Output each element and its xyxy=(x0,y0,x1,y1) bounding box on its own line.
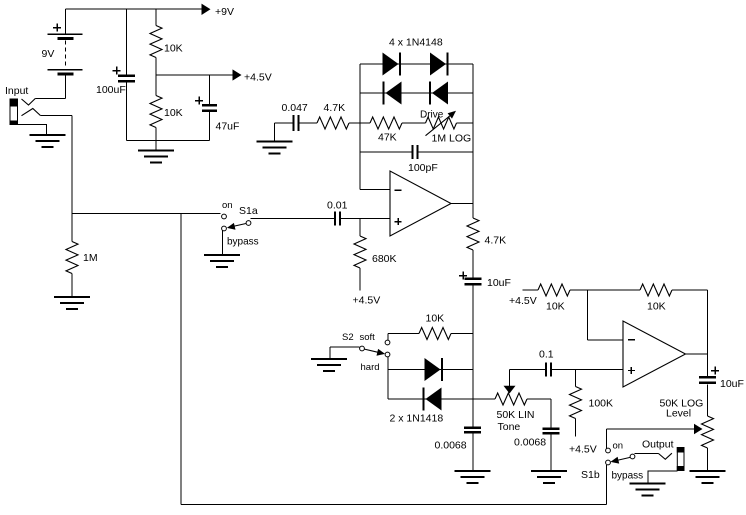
svg-text:10K: 10K xyxy=(164,107,183,119)
svg-text:4.7K: 4.7K xyxy=(324,102,346,114)
svg-text:680K: 680K xyxy=(372,253,397,265)
svg-text:on: on xyxy=(222,200,233,211)
svg-text:0.01: 0.01 xyxy=(327,199,348,211)
svg-text:9V: 9V xyxy=(42,48,55,60)
svg-text:100pF: 100pF xyxy=(408,162,438,174)
svg-text:10K: 10K xyxy=(647,300,666,312)
svg-text:Level: Level xyxy=(666,407,691,419)
svg-text:+4.5V: +4.5V xyxy=(244,71,272,83)
svg-text:bypass: bypass xyxy=(227,236,259,247)
svg-text:10uF: 10uF xyxy=(720,378,744,390)
svg-text:10K: 10K xyxy=(426,312,445,324)
svg-text:100uF: 100uF xyxy=(96,84,126,96)
svg-text:10K: 10K xyxy=(546,300,565,312)
svg-text:soft: soft xyxy=(360,332,376,343)
svg-text:+4.5V: +4.5V xyxy=(509,295,537,307)
svg-text:Drive: Drive xyxy=(420,109,444,120)
svg-text:+4.5V: +4.5V xyxy=(353,294,381,306)
svg-text:S1a: S1a xyxy=(239,205,258,217)
svg-text:10uF: 10uF xyxy=(487,277,511,289)
svg-text:1M LOG: 1M LOG xyxy=(432,132,472,144)
svg-text:100K: 100K xyxy=(589,397,614,409)
svg-text:bypass: bypass xyxy=(612,470,644,481)
svg-text:10K: 10K xyxy=(164,42,183,54)
svg-text:2 x 1N1418: 2 x 1N1418 xyxy=(390,412,444,424)
svg-text:hard: hard xyxy=(361,362,380,373)
svg-text:47uF: 47uF xyxy=(216,120,240,132)
svg-text:0.0068: 0.0068 xyxy=(435,439,467,451)
svg-text:0.0068: 0.0068 xyxy=(514,436,546,448)
svg-text:4 x 1N4148: 4 x 1N4148 xyxy=(389,36,443,48)
svg-text:S1b: S1b xyxy=(581,469,600,481)
svg-text:47K: 47K xyxy=(378,131,397,143)
svg-text:on: on xyxy=(613,440,624,451)
svg-text:50K LIN: 50K LIN xyxy=(497,409,535,421)
svg-text:S2: S2 xyxy=(342,332,354,343)
svg-text:Output: Output xyxy=(642,439,674,451)
svg-text:Input: Input xyxy=(5,85,28,97)
svg-text:+4.5V: +4.5V xyxy=(569,443,597,455)
svg-text:0.047: 0.047 xyxy=(282,102,308,114)
svg-text:Tone: Tone xyxy=(498,421,521,433)
svg-text:1M: 1M xyxy=(83,252,98,264)
svg-text:4.7K: 4.7K xyxy=(485,234,507,246)
svg-text:0.1: 0.1 xyxy=(539,348,554,360)
svg-text:+9V: +9V xyxy=(215,6,234,18)
